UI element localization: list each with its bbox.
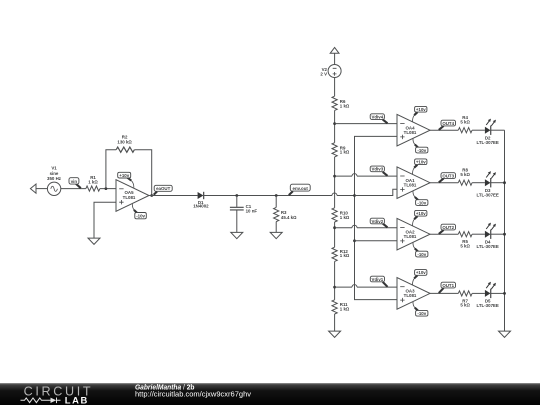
- svg-text:TL081: TL081: [404, 293, 417, 298]
- svg-text:1 kΩ: 1 kΩ: [340, 307, 350, 312]
- svg-text:10 nF: 10 nF: [246, 208, 258, 213]
- power flag up: [330, 48, 339, 65]
- svg-text:45.4 kΩ: 45.4 kΩ: [281, 215, 297, 220]
- power +10v OA2: [413, 210, 427, 225]
- svg-text:GabrielMantha / 2b: GabrielMantha / 2b: [135, 384, 195, 391]
- source V2: [320, 65, 341, 78]
- wire: [334, 314, 336, 331]
- resistor R9: [332, 143, 350, 157]
- wire: [491, 233, 505, 235]
- svg-text:TL081: TL081: [404, 234, 417, 239]
- power -10v OA2: [413, 243, 428, 257]
- node dot bus s2: [503, 181, 506, 184]
- svg-text:5 kΩ: 5 kΩ: [460, 244, 470, 249]
- svg-text:TL081: TL081: [404, 182, 417, 187]
- LED D5: [477, 282, 499, 308]
- wire bus: [355, 136, 398, 299]
- ground: [88, 238, 100, 244]
- diode D1: [193, 192, 209, 209]
- svg-text:+10v: +10v: [416, 160, 426, 165]
- wire: [491, 129, 505, 131]
- node vin: [69, 178, 81, 189]
- power +10v OA5: [118, 172, 134, 187]
- power -10v OA3: [413, 302, 428, 316]
- svg-text:+10v: +10v: [119, 173, 129, 178]
- wire: [334, 110, 336, 142]
- svg-text:Vdiv3: Vdiv3: [371, 167, 383, 172]
- LED D2: [477, 119, 499, 145]
- node dot bus env.out: [353, 194, 356, 197]
- svg-text:-10v: -10v: [136, 214, 145, 219]
- resistor R11: [332, 300, 350, 314]
- input flag: [30, 184, 36, 193]
- svg-text:-10v: -10v: [417, 311, 426, 316]
- resistor R6: [332, 96, 350, 110]
- wire to ladder: [204, 195, 332, 197]
- resistor R2: [116, 135, 134, 153]
- power -10v OA5: [132, 204, 146, 219]
- svg-text:LTL-307EE: LTL-307EE: [477, 140, 499, 145]
- wire: [36, 188, 47, 190]
- node Vdiv4: [370, 114, 387, 124]
- wire OA2 plus: [355, 240, 398, 242]
- wire output OUT3: [429, 182, 458, 184]
- node OUT1: [439, 282, 456, 293]
- svg-text:130 kΩ: 130 kΩ: [117, 140, 132, 145]
- node OUT4: [439, 120, 456, 130]
- wire feedback right: [134, 150, 151, 196]
- power -10v OA1: [413, 191, 428, 205]
- node OUT3: [439, 173, 456, 183]
- power +10v OA1: [413, 159, 427, 174]
- hop over ladder: [332, 193, 337, 195]
- svg-text:5 kΩ: 5 kΩ: [460, 119, 470, 124]
- resistor R4: [458, 115, 472, 133]
- node dot Vdiv3: [333, 175, 336, 178]
- node Vdiv1: [370, 276, 387, 287]
- node dot: [105, 187, 108, 190]
- resistor R12: [332, 247, 350, 261]
- resistor R3: [274, 196, 298, 233]
- ground: [329, 331, 341, 337]
- node dot Vdiv1: [333, 286, 336, 289]
- power +10v OA4: [413, 106, 427, 121]
- svg-text:5 kΩ: 5 kΩ: [460, 172, 470, 177]
- power -10v OA4: [413, 139, 428, 153]
- resistor R5: [458, 232, 472, 249]
- op-amp OA1: [397, 167, 430, 199]
- SECTION: footer bar: [0, 383, 540, 405]
- svg-text:-10v: -10v: [417, 252, 426, 257]
- wire: [472, 129, 485, 131]
- svg-text:LTL-307EE: LTL-307EE: [477, 192, 499, 197]
- wire: [61, 188, 86, 190]
- resistor R7: [458, 291, 472, 308]
- svg-text:-10v: -10v: [417, 148, 426, 153]
- wire: [334, 261, 336, 299]
- wire: [334, 157, 336, 208]
- node dot Vdiv2: [333, 226, 336, 229]
- source V1: [47, 166, 62, 196]
- svg-text:1N4002: 1N4002: [193, 204, 209, 209]
- svg-text:Vdiv2: Vdiv2: [371, 219, 383, 224]
- svg-text:LAB: LAB: [65, 394, 89, 405]
- wire: [472, 292, 485, 294]
- svg-text:5 kΩ: 5 kΩ: [460, 303, 470, 308]
- wire: [100, 188, 116, 190]
- node dot bus s3: [503, 233, 506, 236]
- svg-text:V1: V1: [51, 166, 57, 171]
- op-amp OA4: [397, 114, 430, 146]
- wire: [334, 78, 336, 97]
- wire output OUT4: [429, 129, 458, 131]
- wire output OUT2: [429, 233, 458, 235]
- op-amp OA3: [397, 278, 430, 310]
- op-amp OA2: [397, 218, 430, 250]
- resistor R8: [458, 168, 472, 186]
- svg-text:1 kΩ: 1 kΩ: [88, 179, 98, 184]
- capacitor C1: [230, 196, 257, 233]
- node OUT2: [439, 224, 456, 234]
- svg-text:vin: vin: [71, 179, 78, 184]
- resistor R1: [86, 175, 100, 191]
- ground: [231, 232, 243, 238]
- svg-text:1 kΩ: 1 kΩ: [340, 103, 350, 108]
- svg-text:LTL-307EE: LTL-307EE: [477, 303, 499, 308]
- svg-text:LTL-307EE: LTL-307EE: [477, 244, 499, 249]
- svg-text:TL081: TL081: [123, 195, 136, 200]
- wire feedback left: [106, 150, 116, 189]
- wire OA1 plus jog: [355, 189, 398, 195]
- resistor R10: [332, 208, 350, 222]
- wire: [491, 182, 505, 184]
- svg-text:1 kΩ: 1 kΩ: [340, 215, 350, 220]
- svg-text:eaOUT: eaOUT: [156, 186, 170, 191]
- LED D3: [477, 171, 499, 197]
- wire Vdiv3 row: [335, 174, 397, 177]
- svg-text:-10v: -10v: [417, 200, 426, 205]
- node env.out: [289, 184, 310, 195]
- svg-text:OUT3: OUT3: [442, 173, 454, 178]
- svg-text:1 kΩ: 1 kΩ: [340, 253, 350, 258]
- svg-text:Vdiv4: Vdiv4: [371, 114, 383, 119]
- wire plus input: [94, 202, 116, 238]
- wire: [491, 292, 505, 294]
- ground: [499, 331, 511, 337]
- svg-text:1 kΩ: 1 kΩ: [340, 150, 350, 155]
- wire output OUT1: [429, 292, 458, 294]
- svg-text:TL081: TL081: [404, 130, 417, 135]
- node dot: [150, 194, 153, 197]
- svg-text:350 Hz: 350 Hz: [47, 176, 62, 181]
- node dot bus s4: [503, 292, 506, 295]
- svg-text:+10v: +10v: [416, 270, 426, 275]
- node dot C1: [235, 194, 238, 197]
- svg-text:Vdiv1: Vdiv1: [372, 277, 384, 282]
- node eaOUT: [154, 185, 173, 195]
- ground: [270, 232, 282, 238]
- svg-text:OUT2: OUT2: [442, 225, 454, 230]
- wire: [334, 222, 336, 247]
- svg-text:http://circuitlab.com/cjxw9cxr: http://circuitlab.com/cjxw9cxr67ghv: [135, 392, 252, 399]
- op-amp OA5: [116, 180, 149, 212]
- wire output row: [149, 195, 198, 197]
- wire Vdiv2 row: [335, 225, 397, 227]
- node dot bus OA2: [353, 239, 356, 242]
- node dot R3: [275, 194, 278, 197]
- node Vdiv3: [370, 166, 387, 176]
- svg-text:+10v: +10v: [416, 107, 426, 112]
- wire Vdiv1 row: [335, 285, 397, 288]
- svg-text:+10v: +10v: [416, 211, 426, 216]
- wire: [472, 233, 485, 235]
- wire: [337, 195, 355, 197]
- power +10v OA3: [413, 270, 427, 285]
- node Vdiv2: [370, 218, 387, 227]
- right bus wire: [504, 130, 506, 331]
- wire Vdiv4 row: [335, 123, 397, 125]
- wire: [472, 182, 485, 184]
- svg-text:OUT4: OUT4: [442, 121, 454, 126]
- svg-text:2 V: 2 V: [320, 71, 327, 76]
- svg-text:env.out: env.out: [293, 186, 309, 191]
- node dot Vdiv4: [333, 122, 336, 125]
- LED D4: [477, 223, 499, 249]
- svg-text:OUT1: OUT1: [442, 283, 454, 288]
